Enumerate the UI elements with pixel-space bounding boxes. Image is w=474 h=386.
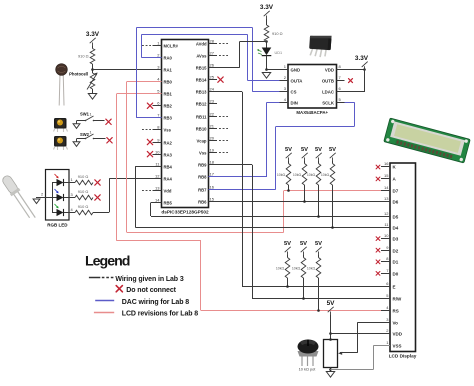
U1 pin 9 RA2 xyxy=(153,142,162,144)
svg-text:MAX548ACPA+: MAX548ACPA+ xyxy=(296,110,328,115)
LCD pin 16 K xyxy=(381,166,390,168)
U1 pin 10 RA3 xyxy=(153,154,162,156)
svg-text:GND: GND xyxy=(291,68,301,73)
power 5V pot xyxy=(327,300,336,315)
svg-text:AVdd: AVdd xyxy=(196,41,207,46)
legend do not connect xyxy=(116,286,122,292)
wire blue RB8 xyxy=(209,176,268,178)
svg-text:10kΩ: 10kΩ xyxy=(293,173,302,177)
wire RB9 vertical xyxy=(252,165,254,299)
svg-text:24: 24 xyxy=(210,86,215,91)
svg-text:10kΩ: 10kΩ xyxy=(277,173,286,177)
pot photo xyxy=(298,340,319,367)
svg-text:3.3V: 3.3V xyxy=(260,4,274,11)
wire red vertical RB0-D7 xyxy=(126,82,128,233)
wire RB13 xyxy=(209,91,243,93)
X do-not-connect RA3 pin10 xyxy=(147,151,152,156)
svg-text:D0: D0 xyxy=(393,271,399,276)
wire to GND pin1 xyxy=(267,69,289,71)
photocell photo xyxy=(56,64,68,106)
U2 pin 1 GND xyxy=(280,69,289,71)
legend wiring given in Lab 3 xyxy=(89,277,100,279)
resistor 910ohm photocell divider xyxy=(90,49,95,65)
RGB LED box xyxy=(46,170,70,221)
svg-text:RA4: RA4 xyxy=(164,176,173,181)
U1 pin 7 RB3 xyxy=(153,117,162,119)
svg-text:20: 20 xyxy=(210,135,215,140)
U1 pin 11 RB4 xyxy=(153,166,162,168)
wire RB13 vertical xyxy=(242,92,244,287)
svg-text:Vss: Vss xyxy=(164,127,172,132)
U2 pin 6 LDAC xyxy=(337,91,345,93)
svg-text:RB10: RB10 xyxy=(196,126,207,131)
svg-text:10kΩ: 10kΩ xyxy=(321,173,330,177)
U1 pin 1 MCLR# xyxy=(153,45,162,47)
wire blue xyxy=(276,126,355,128)
X do-not-connect red LED xyxy=(95,180,100,185)
wire red RB1 xyxy=(117,93,162,95)
svg-text:VDD: VDD xyxy=(393,331,403,336)
svg-text:RB13: RB13 xyxy=(196,89,207,94)
svg-text:10kΩ: 10kΩ xyxy=(307,173,316,177)
svg-text:Vo: Vo xyxy=(393,320,399,325)
power 3.3V DAC xyxy=(355,55,369,70)
svg-text:RB7: RB7 xyxy=(198,187,207,192)
U1 pin 3 RA1 xyxy=(153,69,162,71)
wire LDAC to 3.3V xyxy=(345,91,366,93)
LCD pin 14 D7 xyxy=(381,190,390,192)
svg-text:RA3: RA3 xyxy=(164,152,173,157)
wire wiper to Vo xyxy=(357,322,359,353)
U1 pin 4 RB0 xyxy=(153,81,162,83)
svg-text:1: 1 xyxy=(71,177,73,182)
X do-not-connect LCD D1 xyxy=(376,260,380,264)
resistor 910ohm LED1 xyxy=(264,25,269,41)
node RB15-LED junction xyxy=(265,40,268,43)
wire red riser to D7 row xyxy=(283,191,285,233)
U1 pin 16 RB7 xyxy=(209,189,218,191)
wire RB4 xyxy=(135,166,161,168)
U1 pin 13 Vdd xyxy=(153,190,162,192)
microcontroller U1 dsPIC33EP128GP502 body xyxy=(162,40,209,208)
wire VDD line xyxy=(330,333,390,335)
svg-text:dsPIC33EP128GP502: dsPIC33EP128GP502 xyxy=(161,210,209,215)
X do-not-connect OUTB xyxy=(349,79,353,83)
svg-text:910 Ω: 910 Ω xyxy=(78,204,89,209)
pot wiper arrow xyxy=(340,352,358,354)
wire xyxy=(92,64,94,73)
U1 pin 27 AVss xyxy=(209,55,218,57)
wire blue xyxy=(354,102,356,126)
svg-text:25: 25 xyxy=(210,74,215,79)
svg-text:Vcap: Vcap xyxy=(196,138,206,143)
svg-text:RB15: RB15 xyxy=(196,65,207,70)
DAC U2 MAX548ACPA+ body xyxy=(288,65,337,109)
emission arrow xyxy=(55,204,59,208)
svg-text:15: 15 xyxy=(384,173,389,178)
svg-text:RB8: RB8 xyxy=(198,174,207,179)
DIP-8 IC photo xyxy=(309,34,332,57)
svg-text:D4: D4 xyxy=(393,225,399,230)
svg-text:910 Ω: 910 Ω xyxy=(78,189,89,194)
X do-not-connect SW1 xyxy=(106,119,111,124)
svg-text:28: 28 xyxy=(210,38,215,43)
ground photocell xyxy=(88,94,96,100)
svg-text:1: 1 xyxy=(90,111,92,116)
LCD pin 10 D3 xyxy=(381,238,390,240)
svg-text:10: 10 xyxy=(155,149,160,154)
svg-text:MCLR#: MCLR# xyxy=(164,43,179,48)
junction xyxy=(302,297,305,300)
svg-text:UD1: UD1 xyxy=(275,51,283,55)
LCD pin 9 D2 xyxy=(381,250,390,252)
U1 pin 21 RB10 xyxy=(209,128,218,130)
pullup resistor 10k to 5V (x=332.6) xyxy=(329,147,336,161)
wire RGB common xyxy=(36,197,52,199)
svg-text:2: 2 xyxy=(41,192,43,197)
pullup resistor 10k to 5V (x=288.5) xyxy=(285,147,292,161)
U1 pin 15 RB6 xyxy=(209,201,218,203)
dashed lab3 stub (right pin) xyxy=(219,140,228,142)
wire blue RA0 xyxy=(141,57,161,59)
svg-text:LCD Display: LCD Display xyxy=(389,354,417,359)
X do-not-connect RB2 pin6 xyxy=(147,103,152,108)
U2 pin 2 OUTA xyxy=(280,80,289,82)
node pot top xyxy=(329,338,332,341)
svg-text:RA1: RA1 xyxy=(164,67,173,72)
svg-text:R/W: R/W xyxy=(393,296,403,301)
legend DAC wiring xyxy=(95,300,114,302)
svg-text:5V: 5V xyxy=(315,147,322,153)
switch SW1 photo xyxy=(54,118,68,132)
svg-text:VDD: VDD xyxy=(325,68,334,73)
wire blue xyxy=(266,102,268,177)
resistor 910ohm LED 3 xyxy=(75,195,93,200)
svg-text:21: 21 xyxy=(210,123,215,128)
U1 pin 24 RB13 xyxy=(209,91,218,93)
LCD pin 2 VDD xyxy=(381,333,390,335)
svg-text:22: 22 xyxy=(210,111,215,116)
wire xyxy=(109,178,111,212)
svg-text:12: 12 xyxy=(155,173,160,178)
wire red riser to RS row xyxy=(200,241,202,311)
svg-text:Do not connect: Do not connect xyxy=(126,287,176,294)
RGB LED photo xyxy=(0,174,37,222)
svg-text:5V: 5V xyxy=(327,300,336,307)
svg-text:16: 16 xyxy=(210,184,215,189)
LCD pin 11 D4 xyxy=(381,227,390,229)
X do-not-connect RB14 pin25 xyxy=(218,77,223,82)
svg-text:RB3: RB3 xyxy=(164,115,173,120)
svg-text:10kΩ: 10kΩ xyxy=(276,267,285,271)
svg-text:D3: D3 xyxy=(393,236,399,241)
svg-text:17: 17 xyxy=(210,171,215,176)
wire blue xyxy=(136,27,138,118)
U1 pin 17 RB8 xyxy=(209,176,218,178)
wire Vo line xyxy=(358,322,390,324)
svg-text:RB11: RB11 xyxy=(196,114,207,119)
wire RB6 D6 line xyxy=(209,201,391,203)
svg-text:10kΩ: 10kΩ xyxy=(292,267,301,271)
wire blue RB7 xyxy=(209,189,276,191)
ground RGB LED xyxy=(33,199,40,204)
wire gray xyxy=(373,346,375,370)
svg-text:RA0: RA0 xyxy=(164,55,173,60)
svg-text:OUTB: OUTB xyxy=(322,79,334,84)
X do-not-connect SW2 xyxy=(107,138,112,143)
svg-text:18: 18 xyxy=(210,159,215,164)
svg-text:Wiring given in Lab 3: Wiring given in Lab 3 xyxy=(115,276,183,283)
wire red D7 line xyxy=(284,190,390,192)
LCD pin 5 R/W xyxy=(381,298,390,300)
U2 pin 4 DIN xyxy=(280,102,289,104)
LED UD1 indicator xyxy=(266,41,268,47)
wire gray pot to VSS xyxy=(330,369,373,371)
X do-not-connect LCD D2 xyxy=(376,248,380,252)
wire xyxy=(364,70,366,92)
U1 pin 18 RB9 xyxy=(209,164,218,166)
dashed lab3 stub (right pin) xyxy=(219,152,228,154)
svg-text:27: 27 xyxy=(210,50,215,55)
dashed lab3 stub (left pin) xyxy=(142,190,151,192)
LCD pin 3 Vo xyxy=(381,322,390,324)
wire junction to RA1 xyxy=(92,69,161,71)
pullup resistor 10k to 5V (x=304) xyxy=(301,147,308,161)
wire blue RB3 xyxy=(137,117,162,119)
U1 pin 8 Vss xyxy=(153,129,162,131)
svg-text:LCD revisions for Lab 8: LCD revisions for Lab 8 xyxy=(122,311,198,318)
junction xyxy=(286,285,289,288)
wire blue CS-RB3 top xyxy=(137,27,253,29)
pullup resistor 10k to 5V (x=318.7) xyxy=(315,147,322,161)
wire blue to CS xyxy=(252,91,288,93)
svg-text:13: 13 xyxy=(384,196,389,201)
wire 5V to pot xyxy=(330,315,332,340)
svg-text:14: 14 xyxy=(155,197,160,202)
svg-text:Legend: Legend xyxy=(85,253,130,269)
wire red horizontal to D7 riser xyxy=(127,232,284,234)
svg-text:5V: 5V xyxy=(285,147,292,153)
svg-text:D5: D5 xyxy=(393,214,399,219)
wire green LED to RA4 xyxy=(93,212,109,214)
svg-text:12: 12 xyxy=(384,211,389,216)
svg-text:AVss: AVss xyxy=(196,53,207,58)
resistor 910ohm LED 1 xyxy=(75,180,93,185)
U1 pin 5 RB1 xyxy=(153,93,162,95)
dashed lab3 stub (right pin) xyxy=(219,55,228,57)
svg-text:5V: 5V xyxy=(284,241,291,247)
wire RB5 xyxy=(151,202,162,204)
ground DAC xyxy=(262,73,270,79)
LCD pin 8 D1 xyxy=(381,261,390,263)
LCD pin 15 A xyxy=(381,178,390,180)
svg-text:OUTA: OUTA xyxy=(291,79,303,84)
svg-text:E: E xyxy=(393,284,396,289)
photocell arrow xyxy=(87,74,97,90)
LCD pin 4 RS xyxy=(381,310,390,312)
U2 pin 7 OUTB xyxy=(337,80,345,82)
dashed lab3 stub (right pin) xyxy=(219,116,228,118)
wire D4 line xyxy=(135,227,390,229)
svg-text:D6: D6 xyxy=(393,199,399,204)
wire RB15 to LED node xyxy=(240,41,267,43)
svg-text:CS: CS xyxy=(291,90,297,95)
U2 pin 3 CS xyxy=(280,91,289,93)
legend LCD revisions xyxy=(94,312,114,314)
LCD pin 1 VSS xyxy=(381,345,390,347)
wire red RB0 xyxy=(127,81,162,83)
svg-text:910 Ω: 910 Ω xyxy=(272,31,283,36)
pullup resistor 10k to 5V (x=318.3) xyxy=(315,241,322,255)
X do-not-connect LCD K xyxy=(376,165,380,169)
svg-text:RB5: RB5 xyxy=(164,200,173,205)
ground SW1 xyxy=(73,124,80,129)
svg-text:DIN: DIN xyxy=(291,101,298,106)
svg-text:5V: 5V xyxy=(301,147,308,153)
U1 pin 22 RB11 xyxy=(209,116,218,118)
ground SW2 xyxy=(73,142,80,147)
LCD Display header body xyxy=(390,163,416,352)
potentiometer body xyxy=(324,340,338,368)
dashed lab3 stub (left pin) xyxy=(142,129,151,131)
wire blue to SCLK xyxy=(337,102,355,104)
photocell variable resistor xyxy=(90,73,95,89)
wire blue to DIN xyxy=(267,102,288,104)
svg-text:SCLK: SCLK xyxy=(322,101,335,106)
node pot bottom junction xyxy=(329,368,332,371)
ground pot xyxy=(326,372,334,378)
wire blue xyxy=(252,27,254,91)
svg-text:10: 10 xyxy=(384,233,389,238)
wire red vertical RB1-RS xyxy=(116,94,118,241)
U2 pin 8 VDD xyxy=(337,69,345,71)
LED 3 in RGB package xyxy=(52,197,57,199)
U1 pin 23 RB12 xyxy=(209,103,218,105)
svg-text:RB4: RB4 xyxy=(164,164,173,169)
LED 1 in RGB package xyxy=(52,182,57,184)
svg-text:19: 19 xyxy=(210,147,215,152)
X do-not-connect blue LED xyxy=(95,195,100,200)
LCD pin 13 D6 xyxy=(381,201,390,203)
junction xyxy=(331,226,334,229)
svg-text:RB0: RB0 xyxy=(164,79,173,84)
wire to RA4 pin12 xyxy=(109,178,161,180)
svg-text:RB14: RB14 xyxy=(196,77,207,82)
wire blue xyxy=(275,127,277,190)
U1 pin 14 RB5 xyxy=(153,202,162,204)
svg-text:10 kΩ pot: 10 kΩ pot xyxy=(299,367,317,372)
dashed lab3 stub (right pin) xyxy=(219,43,228,45)
power 3.3V LED chain xyxy=(260,4,274,19)
svg-text:3.3V: 3.3V xyxy=(355,55,369,62)
wire RB15 xyxy=(209,67,240,69)
U1 pin 26 RB15 xyxy=(209,67,218,69)
dashed lab3 stub (left pin) xyxy=(142,45,151,47)
wire blue xyxy=(247,35,249,81)
wire red horizontal RB1-RS xyxy=(117,240,201,242)
svg-text:15: 15 xyxy=(210,196,215,201)
junction xyxy=(317,215,320,218)
U1 pin 12 RA4 xyxy=(153,178,162,180)
wire xyxy=(266,19,268,25)
svg-text:16: 16 xyxy=(384,161,389,166)
power 3.3V photocell xyxy=(86,31,100,46)
wire blue xyxy=(141,35,143,58)
pullup resistor 10k to 5V (x=287.4) xyxy=(284,241,291,255)
LED 4 in RGB package xyxy=(52,212,57,214)
U1 pin 28 AVdd xyxy=(209,43,218,45)
svg-text:13: 13 xyxy=(155,185,160,190)
svg-text:14: 14 xyxy=(384,185,389,190)
wire RB5 vertical xyxy=(150,203,152,217)
U1 pin 20 Vcap xyxy=(209,140,218,142)
svg-text:D2: D2 xyxy=(393,248,399,253)
dashed lab3 stub (right pin) xyxy=(219,128,228,130)
switch SW2 photo xyxy=(54,136,68,150)
svg-text:23: 23 xyxy=(210,98,215,103)
svg-text:5V: 5V xyxy=(315,241,322,247)
svg-text:3.3V: 3.3V xyxy=(86,31,100,38)
wire gray VSS line xyxy=(373,345,390,347)
wire E line xyxy=(242,286,390,288)
emission arrows green xyxy=(257,49,262,55)
wire VDD to 3.3V xyxy=(345,69,366,71)
emission arrow xyxy=(55,174,59,178)
svg-text:DAC wiring for Lab 8: DAC wiring for Lab 8 xyxy=(122,299,189,306)
svg-text:910 Ω: 910 Ω xyxy=(78,54,89,59)
U2 pin 5 SCLK xyxy=(337,102,345,104)
wire D5 line xyxy=(151,216,390,218)
svg-text:10kΩ: 10kΩ xyxy=(307,267,316,271)
wire blue to OUTA xyxy=(248,80,288,82)
node VDD junction xyxy=(329,332,332,335)
LCD module photo xyxy=(384,118,470,163)
X do-not-connect RA2 pin9 xyxy=(147,139,152,144)
X do-not-connect LCD A xyxy=(376,177,380,181)
svg-text:RS: RS xyxy=(393,308,399,313)
U1 pin 19 Vss xyxy=(209,152,218,154)
svg-text:VSS: VSS xyxy=(393,343,402,348)
X do-not-connect LCD D3 xyxy=(376,237,380,241)
junction xyxy=(287,189,290,192)
svg-text:1: 1 xyxy=(90,129,92,134)
LCD pin 6 E xyxy=(381,286,390,288)
wire RB9 xyxy=(209,164,253,166)
svg-text:LDAC: LDAC xyxy=(322,90,334,95)
node photocell-RA1 junction xyxy=(91,68,94,71)
wire xyxy=(92,89,94,94)
wire pot bottom xyxy=(330,368,332,372)
svg-text:SW1: SW1 xyxy=(80,112,90,117)
svg-text:Vdd: Vdd xyxy=(164,188,172,193)
node DAC GND junction xyxy=(265,68,268,71)
pullup resistor 10k to 5V (x=303.2) xyxy=(300,241,307,255)
svg-text:Photocell: Photocell xyxy=(69,72,88,77)
U1 pin 6 RB2 xyxy=(153,105,162,107)
svg-text:D1: D1 xyxy=(393,259,399,264)
junction xyxy=(303,200,306,203)
wire xyxy=(239,41,241,67)
X do-not-connect LCD D0 xyxy=(376,272,380,276)
LCD pin 7 D0 xyxy=(381,273,390,275)
wire LED cathode to GND pin xyxy=(266,56,268,70)
svg-text:3: 3 xyxy=(71,192,73,197)
svg-text:SW2: SW2 xyxy=(80,132,90,137)
svg-text:26: 26 xyxy=(210,62,215,67)
U1 pin 2 RA0 xyxy=(153,57,162,59)
svg-text:RB1: RB1 xyxy=(164,91,173,96)
svg-text:RA2: RA2 xyxy=(164,140,173,145)
